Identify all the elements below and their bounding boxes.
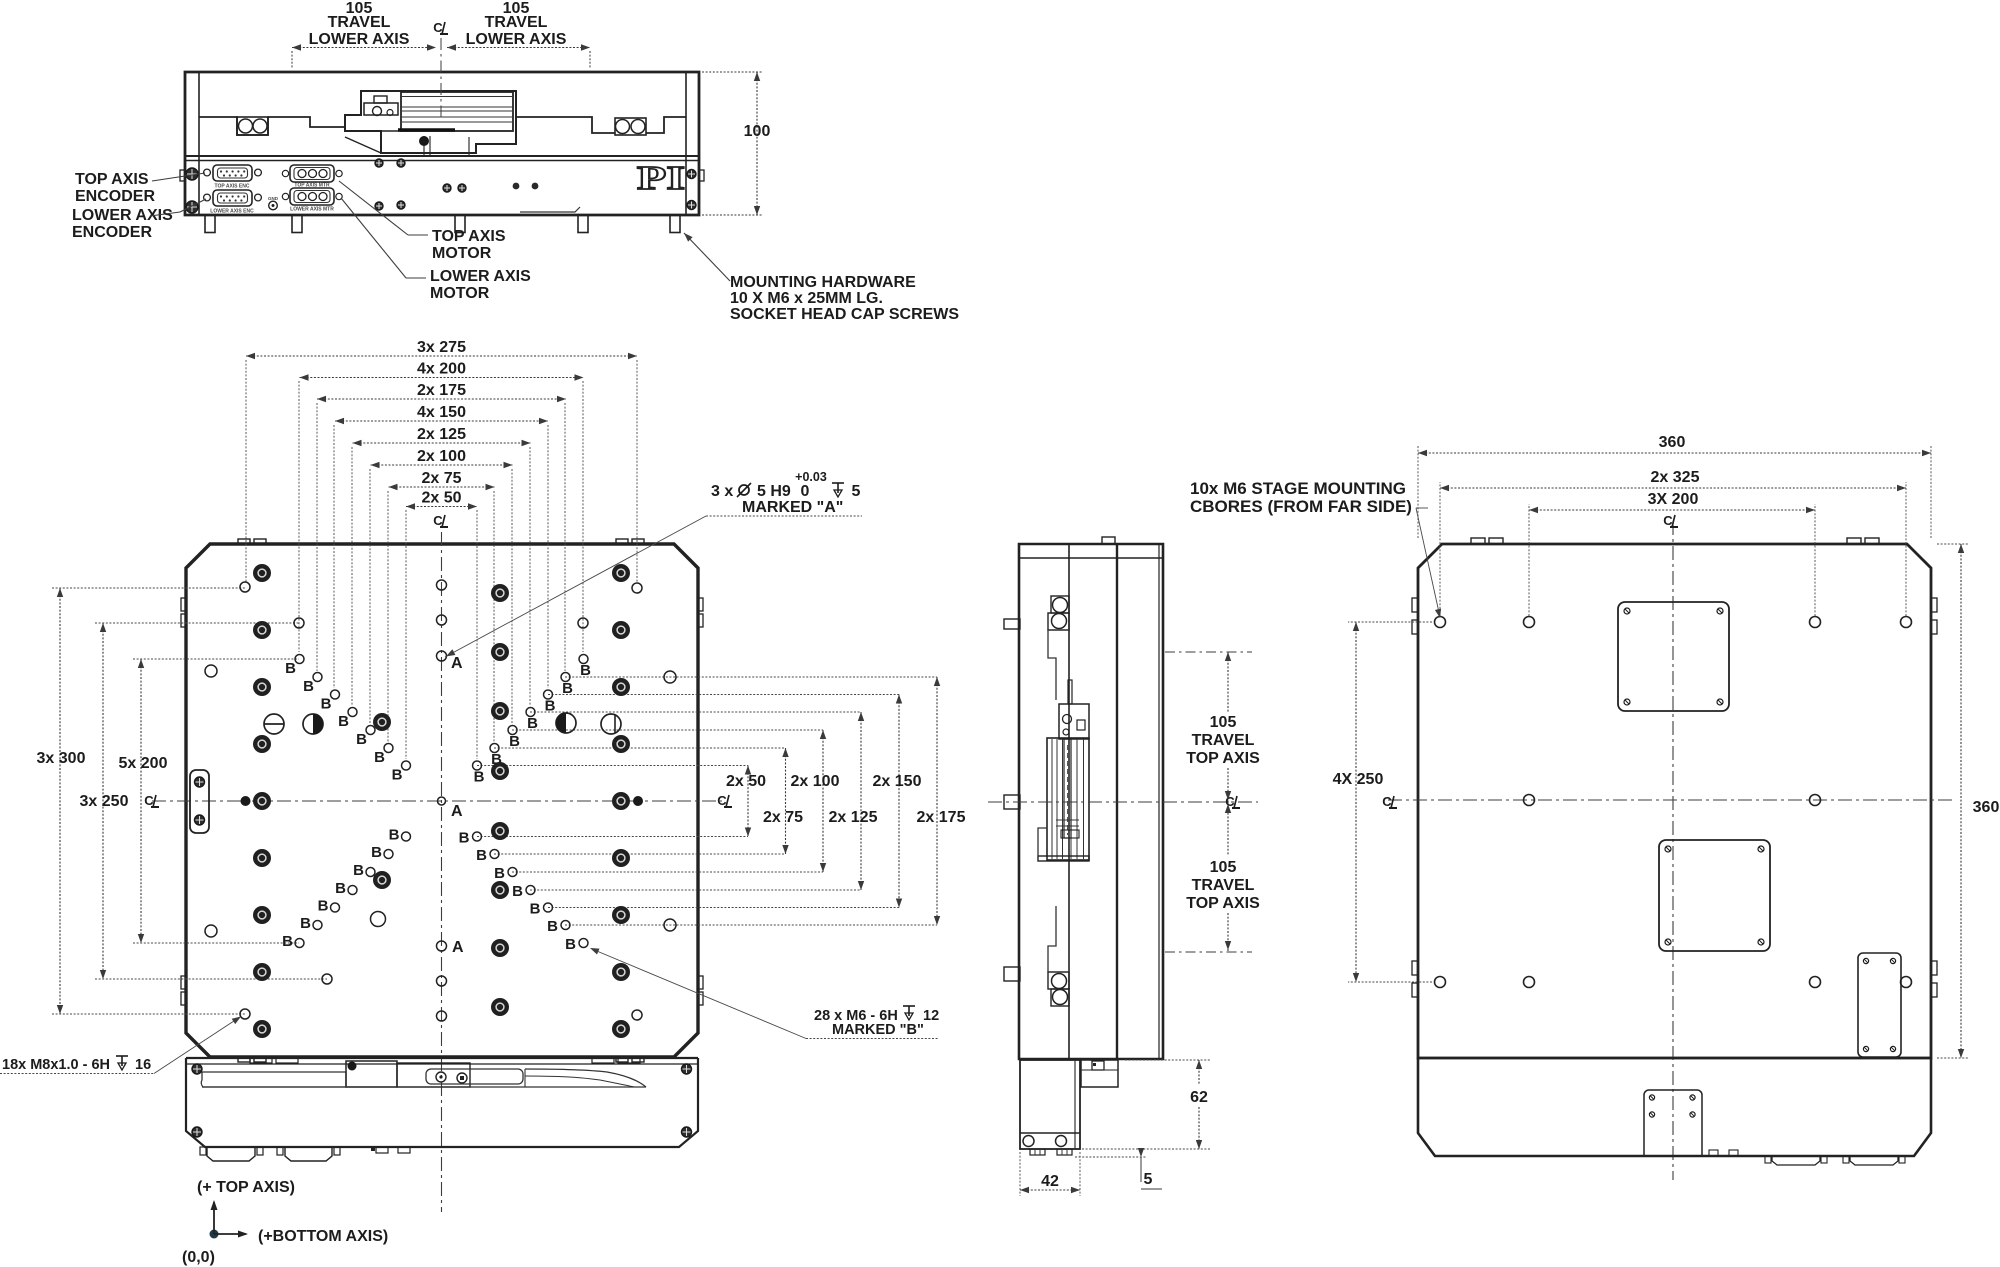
svg-text:B: B: [374, 749, 385, 766]
svg-text:3x 250: 3x 250: [80, 793, 129, 810]
svg-text:MOTOR: MOTOR: [432, 245, 492, 262]
svg-text:TRAVEL: TRAVEL: [1192, 877, 1255, 894]
svg-text:42: 42: [1041, 1173, 1059, 1190]
svg-text:12: 12: [923, 1008, 939, 1024]
svg-text:MOUNTING HARDWARE: MOUNTING HARDWARE: [730, 274, 916, 291]
svg-text:TOP AXIS: TOP AXIS: [432, 228, 506, 245]
svg-text:2x 50: 2x 50: [421, 490, 461, 507]
svg-text:4x 200: 4x 200: [417, 361, 466, 378]
svg-text:18x M8x1.0 - 6H: 18x M8x1.0 - 6H: [2, 1057, 110, 1073]
svg-text:A: A: [451, 803, 463, 820]
svg-text:ENCODER: ENCODER: [75, 188, 155, 205]
svg-text:A: A: [452, 939, 464, 956]
svg-text:CBORES (FROM FAR SIDE): CBORES (FROM FAR SIDE): [1190, 497, 1412, 516]
svg-text:100: 100: [744, 123, 771, 140]
svg-text:LOWER AXIS MTR: LOWER AXIS MTR: [290, 207, 334, 213]
svg-text:2x 125: 2x 125: [417, 426, 466, 443]
svg-text:2x 175: 2x 175: [417, 382, 466, 399]
svg-text:4X 250: 4X 250: [1333, 771, 1384, 788]
svg-text:B: B: [527, 715, 538, 732]
svg-text:GND: GND: [268, 196, 279, 201]
svg-text:MOTOR: MOTOR: [430, 285, 490, 302]
svg-text:B: B: [562, 680, 573, 697]
svg-text:3 x: 3 x: [711, 483, 733, 500]
svg-text:B: B: [285, 660, 296, 677]
svg-text:B: B: [389, 827, 400, 844]
svg-text:(0,0): (0,0): [182, 1249, 215, 1266]
svg-text:TRAVEL: TRAVEL: [328, 14, 391, 31]
svg-text:2x 75: 2x 75: [421, 470, 461, 487]
svg-text:B: B: [547, 918, 558, 935]
svg-text:5x 200: 5x 200: [119, 755, 168, 772]
svg-text:4x 150: 4x 150: [417, 404, 466, 421]
svg-text:B: B: [371, 844, 382, 861]
svg-text:B: B: [494, 865, 505, 882]
svg-text:3X 200: 3X 200: [1648, 491, 1699, 508]
svg-text:B: B: [512, 883, 523, 900]
svg-text:B: B: [474, 769, 485, 786]
svg-text:TOP AXIS: TOP AXIS: [1186, 895, 1260, 912]
svg-text:LOWER AXIS ENC: LOWER AXIS ENC: [210, 209, 254, 215]
svg-text:B: B: [545, 698, 556, 715]
svg-text:B: B: [318, 898, 329, 915]
svg-text:MARKED "A": MARKED "A": [742, 499, 843, 516]
svg-text:TOP AXIS: TOP AXIS: [1186, 750, 1260, 767]
svg-text:(+BOTTOM AXIS): (+BOTTOM AXIS): [258, 1228, 388, 1245]
svg-text:+0.03: +0.03: [795, 470, 827, 484]
svg-text:B: B: [565, 936, 576, 953]
svg-text:105: 105: [1210, 714, 1237, 731]
svg-text:TRAVEL: TRAVEL: [485, 14, 548, 31]
svg-text:TOP AXIS: TOP AXIS: [75, 171, 149, 188]
svg-text:TRAVEL: TRAVEL: [1192, 732, 1255, 749]
svg-text:105: 105: [1210, 859, 1237, 876]
svg-text:3x 275: 3x 275: [417, 339, 466, 356]
svg-text:LOWER AXIS: LOWER AXIS: [430, 268, 531, 285]
svg-text:ENCODER: ENCODER: [72, 224, 152, 241]
svg-text:B: B: [580, 662, 591, 679]
svg-text:B: B: [476, 847, 487, 864]
svg-text:B: B: [459, 830, 470, 847]
svg-text:10 X M6 x 25MM LG.: 10 X M6 x 25MM LG.: [730, 290, 883, 307]
svg-text:B: B: [335, 880, 346, 897]
svg-text:2x 50: 2x 50: [726, 773, 766, 790]
svg-text:A: A: [451, 655, 463, 672]
svg-text:SOCKET HEAD CAP SCREWS: SOCKET HEAD CAP SCREWS: [730, 306, 959, 323]
svg-text:B: B: [530, 901, 541, 918]
svg-text:2x 325: 2x 325: [1651, 469, 1700, 486]
svg-text:2x 150: 2x 150: [873, 773, 922, 790]
svg-text:0: 0: [801, 483, 810, 500]
svg-text:360: 360: [1659, 434, 1686, 451]
svg-text:TOP AXIS MTR: TOP AXIS MTR: [294, 183, 330, 189]
svg-text:5: 5: [1144, 1171, 1153, 1188]
svg-text:B: B: [321, 696, 332, 713]
svg-text:3x 300: 3x 300: [37, 750, 86, 767]
svg-text:16: 16: [135, 1057, 151, 1073]
svg-text:10x M6 STAGE MOUNTING: 10x M6 STAGE MOUNTING: [1190, 479, 1406, 498]
svg-text:MARKED "B": MARKED "B": [832, 1022, 924, 1038]
svg-text:62: 62: [1190, 1089, 1208, 1106]
svg-text:2x 100: 2x 100: [791, 773, 840, 790]
svg-text:B: B: [356, 731, 367, 748]
svg-text:360: 360: [1973, 799, 2000, 816]
svg-text:B: B: [300, 915, 311, 932]
svg-text:B: B: [338, 713, 349, 730]
svg-text:2x 175: 2x 175: [917, 809, 966, 826]
svg-text:LOWER AXIS: LOWER AXIS: [309, 31, 410, 48]
svg-text:5: 5: [852, 483, 861, 500]
svg-text:B: B: [282, 933, 293, 950]
svg-text:B: B: [303, 678, 314, 695]
svg-text:B: B: [509, 733, 520, 750]
svg-text:B: B: [353, 862, 364, 879]
svg-text:B: B: [392, 767, 403, 784]
svg-text:2x 100: 2x 100: [417, 448, 466, 465]
svg-text:5 H9: 5 H9: [757, 483, 791, 500]
svg-text:TOP AXIS ENC: TOP AXIS ENC: [215, 184, 250, 190]
svg-text:(+ TOP AXIS): (+ TOP AXIS): [197, 1179, 295, 1196]
svg-text:LOWER AXIS: LOWER AXIS: [466, 31, 567, 48]
svg-text:PI: PI: [637, 160, 685, 197]
svg-text:2x 125: 2x 125: [829, 809, 878, 826]
svg-text:2x 75: 2x 75: [763, 809, 803, 826]
